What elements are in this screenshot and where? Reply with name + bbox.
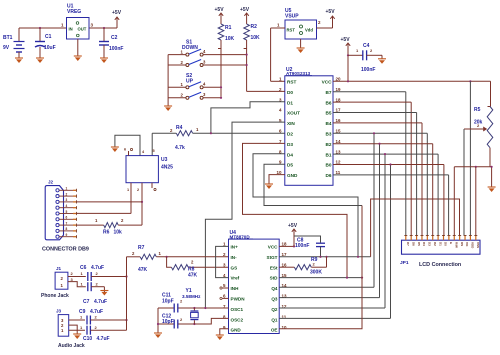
supervisor U5 [285, 20, 317, 39]
svg-text:D4: D4 [422, 242, 426, 246]
wire audio rail [126, 257, 128, 330]
svg-text:20: 20 [336, 77, 342, 82]
svg-text:C6: C6 [80, 265, 87, 271]
power +5V C4 [346, 43, 350, 49]
svg-text:J1: J1 [56, 266, 62, 271]
svg-text:+5V: +5V [326, 9, 336, 15]
svg-text:Phone Jack: Phone Jack [41, 293, 69, 299]
svg-text:10uF: 10uF [44, 45, 56, 51]
pin 2 U3 stub [141, 183, 143, 225]
junction C6 to rail [125, 275, 127, 277]
svg-text:IN-: IN- [231, 255, 238, 260]
svg-text:5: 5 [153, 149, 155, 153]
pin 4 JP1 [421, 235, 423, 240]
wire +5V down to VCC row [347, 49, 349, 81]
svg-text:OSC1: OSC1 [231, 307, 244, 312]
svg-text:7: 7 [66, 221, 68, 225]
svg-text:VCC: VCC [268, 245, 278, 250]
svg-text:B5: B5 [326, 111, 332, 116]
wire IN+ Vref bracket [216, 246, 229, 277]
capacitor C8 [316, 242, 325, 244]
wire StGT to LCD RS [371, 199, 460, 257]
svg-text:E: E [449, 242, 453, 244]
svg-text:13: 13 [336, 149, 342, 154]
svg-text:RS: RS [460, 242, 464, 246]
crystal Y1 [193, 308, 195, 310]
pin 1 U3 stub [130, 183, 132, 214]
svg-text:D6: D6 [411, 242, 415, 246]
pin 3 U3 stub [151, 183, 153, 188]
wire B0 to LCD D0 [333, 164, 444, 166]
svg-text:1: 1 [127, 188, 129, 192]
svg-text:D5: D5 [287, 163, 293, 168]
svg-text:300K: 300K [310, 270, 322, 276]
ground battery [15, 58, 23, 63]
svg-text:4N25: 4N25 [161, 165, 173, 171]
ground opto emitter [111, 147, 119, 152]
svg-text:CONNECTOR DB9: CONNECTOR DB9 [42, 247, 89, 253]
capacitor C10 [86, 326, 88, 335]
svg-text:XIN: XIN [287, 121, 295, 126]
capacitor C4 [348, 54, 363, 56]
svg-text:Q2: Q2 [271, 307, 278, 312]
svg-text:PWDN: PWDN [231, 297, 246, 302]
wire opto emitter to ground [115, 135, 140, 155]
svg-text:StD: StD [270, 276, 279, 281]
junction VDD drop [469, 80, 471, 82]
power +5V U4 [292, 229, 296, 235]
pin 1 J1 wire [68, 282, 86, 287]
svg-text:R4: R4 [176, 125, 183, 131]
svg-text:B2: B2 [326, 142, 332, 147]
wire U4 VCC [279, 245, 294, 247]
svg-text:C7: C7 [83, 299, 90, 305]
pin 3 JP1 [416, 235, 418, 240]
svg-text:+5V: +5V [112, 10, 122, 16]
switch S2 pole A [168, 86, 186, 88]
pin 2 J3 wire to ground [69, 325, 78, 334]
svg-text:B0: B0 [326, 163, 332, 168]
wire OSC2 row [178, 318, 229, 324]
svg-text:D1: D1 [287, 100, 293, 105]
svg-text:+5V: +5V [215, 7, 225, 13]
ground C1 [36, 58, 44, 63]
wire StGT row [279, 256, 370, 258]
wire C8 branch [294, 236, 321, 243]
svg-text:GS: GS [231, 265, 238, 270]
pin 2 JP1 [410, 235, 412, 240]
junction C9 to rail [125, 319, 127, 321]
switch S2 pole B [168, 97, 186, 99]
ground U2 [265, 184, 273, 189]
svg-text:LCD Connection: LCD Connection [419, 262, 461, 268]
wire R6 to opto cathode [118, 224, 142, 226]
svg-text:+5V: +5V [240, 7, 250, 13]
wire U5 RST to U2 RST [271, 27, 285, 29]
voltage regulator U1 [67, 18, 90, 40]
wire R1 down to S2 [220, 49, 222, 98]
svg-text:VREG: VREG [67, 9, 81, 15]
optocoupler U3 [126, 156, 158, 183]
power +5V R1 [219, 13, 223, 19]
capacitor C6 [87, 272, 89, 281]
microcontroller U2 [285, 76, 333, 186]
connector J2 DB9 shell [45, 186, 63, 240]
pin 6 JP1 [432, 235, 434, 240]
resistor R6 [104, 223, 119, 228]
svg-text:JP1: JP1 [400, 260, 409, 266]
svg-text:R5: R5 [474, 107, 481, 113]
svg-text:3.58MHz: 3.58MHz [182, 294, 201, 299]
svg-text:RST: RST [287, 28, 296, 33]
svg-text:14: 14 [336, 139, 342, 144]
svg-text:VCC: VCC [322, 80, 333, 85]
svg-text:B7: B7 [326, 90, 332, 95]
wire B3 to LCD D3 [333, 132, 427, 134]
svg-text:D0: D0 [287, 90, 293, 95]
junction XIN drop [204, 307, 206, 309]
wire D4 to StGT [253, 154, 358, 257]
svg-text:10pF: 10pF [162, 319, 174, 325]
wire DB9 pin5 to opto [77, 212, 132, 214]
capacitor C9 [86, 316, 88, 325]
svg-text:100nF: 100nF [295, 243, 309, 249]
svg-text:11: 11 [336, 170, 341, 175]
svg-text:2: 2 [66, 192, 68, 196]
svg-text:4.7k: 4.7k [175, 145, 185, 151]
junction D1 R4 D2 [210, 132, 212, 134]
svg-text:6: 6 [66, 216, 68, 220]
svg-text:4.7uF: 4.7uF [97, 336, 110, 342]
svg-text:4.7uF: 4.7uF [94, 299, 107, 305]
junction crystal bottom [193, 323, 195, 325]
pin 3 J3 wire [69, 319, 85, 321]
svg-text:DOWN: DOWN [182, 45, 198, 51]
ground C4 [381, 55, 383, 59]
svg-text:D5: D5 [417, 242, 421, 246]
svg-text:C2: C2 [111, 35, 118, 41]
svg-text:D2: D2 [433, 242, 437, 246]
svg-text:B3: B3 [326, 132, 332, 137]
pin 3 DB9 [56, 200, 59, 203]
wire R4 left to opto collector [152, 132, 176, 134]
svg-text:9V: 9V [3, 45, 10, 51]
svg-text:B1: B1 [326, 152, 332, 157]
phone jack J1 [55, 272, 68, 289]
svg-text:16: 16 [282, 262, 288, 267]
junction S1 pole B to R2 [246, 64, 248, 66]
svg-text:R6: R6 [103, 230, 110, 236]
resistor R1 [220, 19, 222, 24]
wire B2 to LCD D2 [333, 143, 433, 145]
wire VCC row to R5 [333, 80, 491, 82]
svg-text:6: 6 [124, 148, 126, 152]
pin 2 J1 wire [68, 276, 86, 278]
svg-text:2: 2 [137, 188, 139, 192]
svg-text:100nF: 100nF [109, 46, 123, 52]
svg-text:15: 15 [336, 129, 342, 134]
pin 1 J3 wire [69, 329, 85, 331]
svg-text:GND: GND [231, 328, 242, 333]
pin INH stub [223, 287, 229, 289]
svg-text:R1: R1 [225, 25, 232, 31]
capacitor C7 [87, 282, 89, 291]
ground crystal [154, 333, 162, 338]
wire R5 top [490, 81, 492, 106]
svg-text:D1: D1 [438, 242, 442, 246]
audio jack J3 [58, 315, 68, 337]
DTMF decoder U4 [229, 239, 280, 333]
resistor R4 [176, 131, 192, 136]
junction C1 top [39, 27, 41, 29]
svg-text:4.7uF: 4.7uF [90, 309, 103, 315]
junction S2 pole A to R1 [220, 86, 222, 88]
wire U2 GND [269, 175, 285, 184]
wire D0 to R2 node [247, 90, 285, 92]
svg-text:D3: D3 [287, 142, 293, 147]
wire R2 down to S1 and D0 [246, 49, 248, 92]
junction C2 top [103, 27, 105, 29]
wire +5V from U1 output [116, 23, 118, 28]
resistor R9 [294, 265, 311, 270]
svg-text:OE: OE [271, 328, 278, 333]
resistor R8 [167, 257, 172, 267]
pin 14 JP1 [475, 235, 477, 240]
svg-text:ESt: ESt [270, 265, 278, 270]
wire main +9V rail left [19, 27, 67, 29]
junction S2 pole B to R1 [220, 97, 222, 99]
ground U4 [216, 335, 224, 340]
wire D6 to LCD E [333, 174, 449, 176]
svg-text:10pF: 10pF [162, 299, 174, 305]
svg-text:15: 15 [282, 273, 288, 278]
svg-text:47K: 47K [188, 273, 198, 279]
svg-text:5: 5 [66, 210, 68, 214]
svg-text:J2: J2 [48, 180, 54, 185]
wire Q4 to B3 [279, 286, 374, 288]
switch S1 pole A [168, 54, 186, 56]
svg-text:R/W: R/W [454, 242, 458, 248]
svg-text:18: 18 [336, 97, 342, 102]
svg-text:BT1: BT1 [3, 35, 13, 41]
svg-text:D4: D4 [287, 152, 293, 157]
wire U5 ground [300, 39, 302, 48]
capacitor C2 [103, 28, 105, 41]
svg-text:10K: 10K [251, 35, 261, 41]
svg-text:J3: J3 [56, 309, 62, 314]
junction C4 tap [347, 54, 349, 56]
svg-text:VSUP: VSUP [285, 14, 299, 20]
wire OE StD D5 common [279, 206, 362, 329]
junction crystal top [193, 307, 195, 309]
pin 13 JP1 [469, 235, 471, 240]
potentiometer R5 [487, 107, 493, 148]
svg-text:D6: D6 [326, 173, 332, 178]
svg-text:StGT: StGT [267, 255, 278, 260]
svg-text:OUT: OUT [78, 27, 87, 32]
wire D3 to StD [243, 143, 348, 277]
svg-text:D3: D3 [428, 242, 432, 246]
svg-text:17: 17 [282, 252, 288, 257]
svg-text:9: 9 [66, 233, 68, 237]
pin 8 JP1 [442, 235, 444, 240]
wire switch left rail [167, 55, 169, 106]
svg-text:INH: INH [231, 286, 240, 291]
svg-text:4.7uF: 4.7uF [91, 265, 104, 271]
wire U4 GND [220, 329, 229, 335]
svg-text:18: 18 [282, 242, 288, 247]
svg-text:VO: VO [465, 242, 469, 247]
wire B4 to LCD D4 [333, 122, 422, 124]
svg-text:100nF: 100nF [361, 67, 375, 73]
pin 1 JP1 [405, 235, 407, 240]
ground C7 [100, 291, 108, 296]
wire D1 to R4 [211, 102, 285, 133]
svg-text:C9: C9 [79, 309, 86, 315]
svg-text:47K: 47K [138, 267, 148, 273]
pin 12 JP1 [464, 235, 466, 240]
svg-text:RST: RST [287, 80, 297, 85]
wire R5 bottom to ground [489, 148, 491, 167]
svg-text:IN+: IN+ [231, 245, 239, 250]
wire DB9 pin7 to R6 [77, 224, 104, 226]
wire crystal left rail [157, 308, 159, 333]
pin 8 DB9 [56, 229, 59, 232]
wire LCD ground run [454, 166, 491, 168]
ground LCD [488, 187, 496, 192]
svg-text:UP: UP [186, 78, 194, 84]
svg-text:Q4: Q4 [271, 286, 278, 291]
pin 5 JP1 [426, 235, 428, 240]
pin PWDN stub [223, 297, 229, 299]
svg-text:U3: U3 [161, 157, 168, 163]
pin 11 JP1 [459, 235, 461, 240]
svg-text:R2: R2 [251, 24, 258, 30]
wire B7 to LCD D7 [333, 91, 406, 93]
svg-text:1: 1 [66, 187, 68, 191]
pin 2 DB9 [56, 195, 59, 198]
ground C2 [100, 58, 108, 63]
pin 9 DB9 [56, 235, 59, 238]
header JP1 LCD [402, 240, 481, 254]
svg-text:C10: C10 [83, 336, 92, 342]
capacitor C11 [158, 307, 174, 309]
svg-text:17: 17 [336, 108, 342, 113]
svg-text:IN: IN [69, 27, 73, 32]
svg-text:C1: C1 [45, 34, 52, 40]
svg-text:16: 16 [336, 118, 342, 123]
wire B6 to LCD D6 [333, 101, 411, 103]
wire Q1 to B0 [279, 317, 390, 319]
svg-text:B4: B4 [326, 121, 332, 126]
pin 7 DB9 [56, 224, 59, 227]
svg-text:10k: 10k [114, 230, 123, 236]
pin 7 JP1 [437, 235, 439, 240]
pin 6 U3 stub [128, 151, 130, 156]
svg-text:Q1: Q1 [271, 317, 278, 322]
junction R7 R8 [166, 256, 168, 258]
pin 6 DB9 [56, 218, 59, 221]
junction ground R5 [491, 166, 493, 168]
power +5V U1 output [115, 17, 119, 23]
ground J3 [73, 334, 81, 339]
svg-text:Vref: Vref [231, 276, 240, 281]
junction U3 cathode to DB9 wire [141, 201, 143, 203]
wire C7 to ground [103, 287, 105, 292]
wire Q3 to B2 [279, 297, 379, 299]
svg-text:+5V: +5V [341, 37, 351, 43]
wire R5 wiper to LCD VO [463, 129, 465, 235]
pin 1 DB9 [56, 189, 59, 192]
svg-text:R7: R7 [138, 245, 145, 251]
wire B5 to LCD D5 [333, 112, 417, 114]
svg-text:GND: GND [287, 173, 298, 178]
wire StD row [279, 277, 362, 279]
svg-text:XOUT: XOUT [287, 111, 300, 116]
svg-text:OSC2: OSC2 [231, 317, 244, 322]
wire U1 ground pin [77, 39, 79, 56]
svg-text:3: 3 [66, 198, 68, 202]
wire DB9 pin3 to opto [77, 201, 143, 203]
svg-text:+5V: +5V [288, 223, 298, 229]
ground U1 [74, 56, 82, 61]
svg-text:Q3: Q3 [271, 297, 278, 302]
svg-text:VSS: VSS [476, 242, 480, 248]
power +5V U5 [330, 16, 334, 22]
svg-text:8: 8 [66, 227, 68, 231]
switch S1 pole B [168, 64, 186, 66]
svg-text:AT90S2313: AT90S2313 [286, 71, 311, 76]
wire ESt row with R9 [279, 266, 294, 268]
pin 5 DB9 [56, 212, 59, 215]
wire D2 row / R4 node [193, 132, 285, 134]
svg-text:19: 19 [336, 87, 342, 92]
svg-text:B6: B6 [326, 100, 332, 105]
power +5V R2 [244, 13, 248, 19]
svg-text:12: 12 [336, 160, 342, 165]
ground switch rail [164, 106, 172, 111]
svg-text:Audio Jack: Audio Jack [58, 343, 85, 349]
resistor R2 [246, 19, 248, 24]
svg-text:D7: D7 [406, 242, 410, 246]
pin 10 JP1 [453, 235, 455, 240]
svg-text:Vdd: Vdd [305, 28, 313, 33]
battery BT1 [18, 28, 20, 42]
wire D5 to StD [264, 164, 362, 205]
svg-text:10K: 10K [225, 36, 235, 42]
svg-text:D2: D2 [287, 132, 293, 137]
junction S1 pole A to R2 [246, 54, 248, 56]
junction LCD VSS [475, 166, 477, 168]
wire B1 to LCD D1 [333, 153, 438, 155]
wire Q2 to B1 [279, 307, 385, 309]
wire U5 Vdd to +5V [317, 27, 333, 29]
pin 9 JP1 [448, 235, 450, 240]
resistor R7 [127, 256, 141, 258]
capacitor C1 [39, 28, 41, 41]
wire VDD to LCD [469, 81, 471, 235]
capacitor C12 [158, 323, 174, 325]
svg-text:VDD: VDD [471, 242, 475, 249]
wire XIN to crystal node [205, 122, 284, 308]
svg-text:D0: D0 [444, 242, 448, 246]
svg-text:C4: C4 [363, 43, 370, 49]
ground U5 [297, 48, 305, 53]
pin 4 DB9 [56, 206, 59, 209]
svg-text:4: 4 [66, 204, 68, 208]
wire OSC1 row [178, 307, 229, 309]
